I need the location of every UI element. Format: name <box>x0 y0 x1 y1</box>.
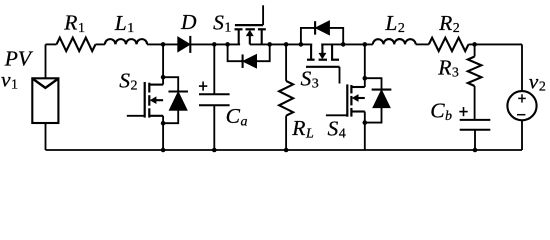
svg-text:Ca: Ca <box>226 104 248 129</box>
svg-text:L1: L1 <box>114 11 134 36</box>
svg-text:v1: v1 <box>1 68 18 93</box>
svg-text:v2: v2 <box>529 69 546 94</box>
svg-text:S2: S2 <box>119 68 137 93</box>
svg-text:RL: RL <box>291 116 314 141</box>
svg-text:R2: R2 <box>438 11 460 36</box>
svg-text:Cb: Cb <box>430 99 452 124</box>
svg-text:R3: R3 <box>437 56 459 81</box>
svg-text:D: D <box>180 10 197 34</box>
svg-text:R1: R1 <box>63 11 85 36</box>
svg-text:S4: S4 <box>328 116 346 141</box>
svg-text:S3: S3 <box>301 67 319 92</box>
svg-text:S1: S1 <box>213 10 231 35</box>
svg-text:L2: L2 <box>384 11 404 36</box>
